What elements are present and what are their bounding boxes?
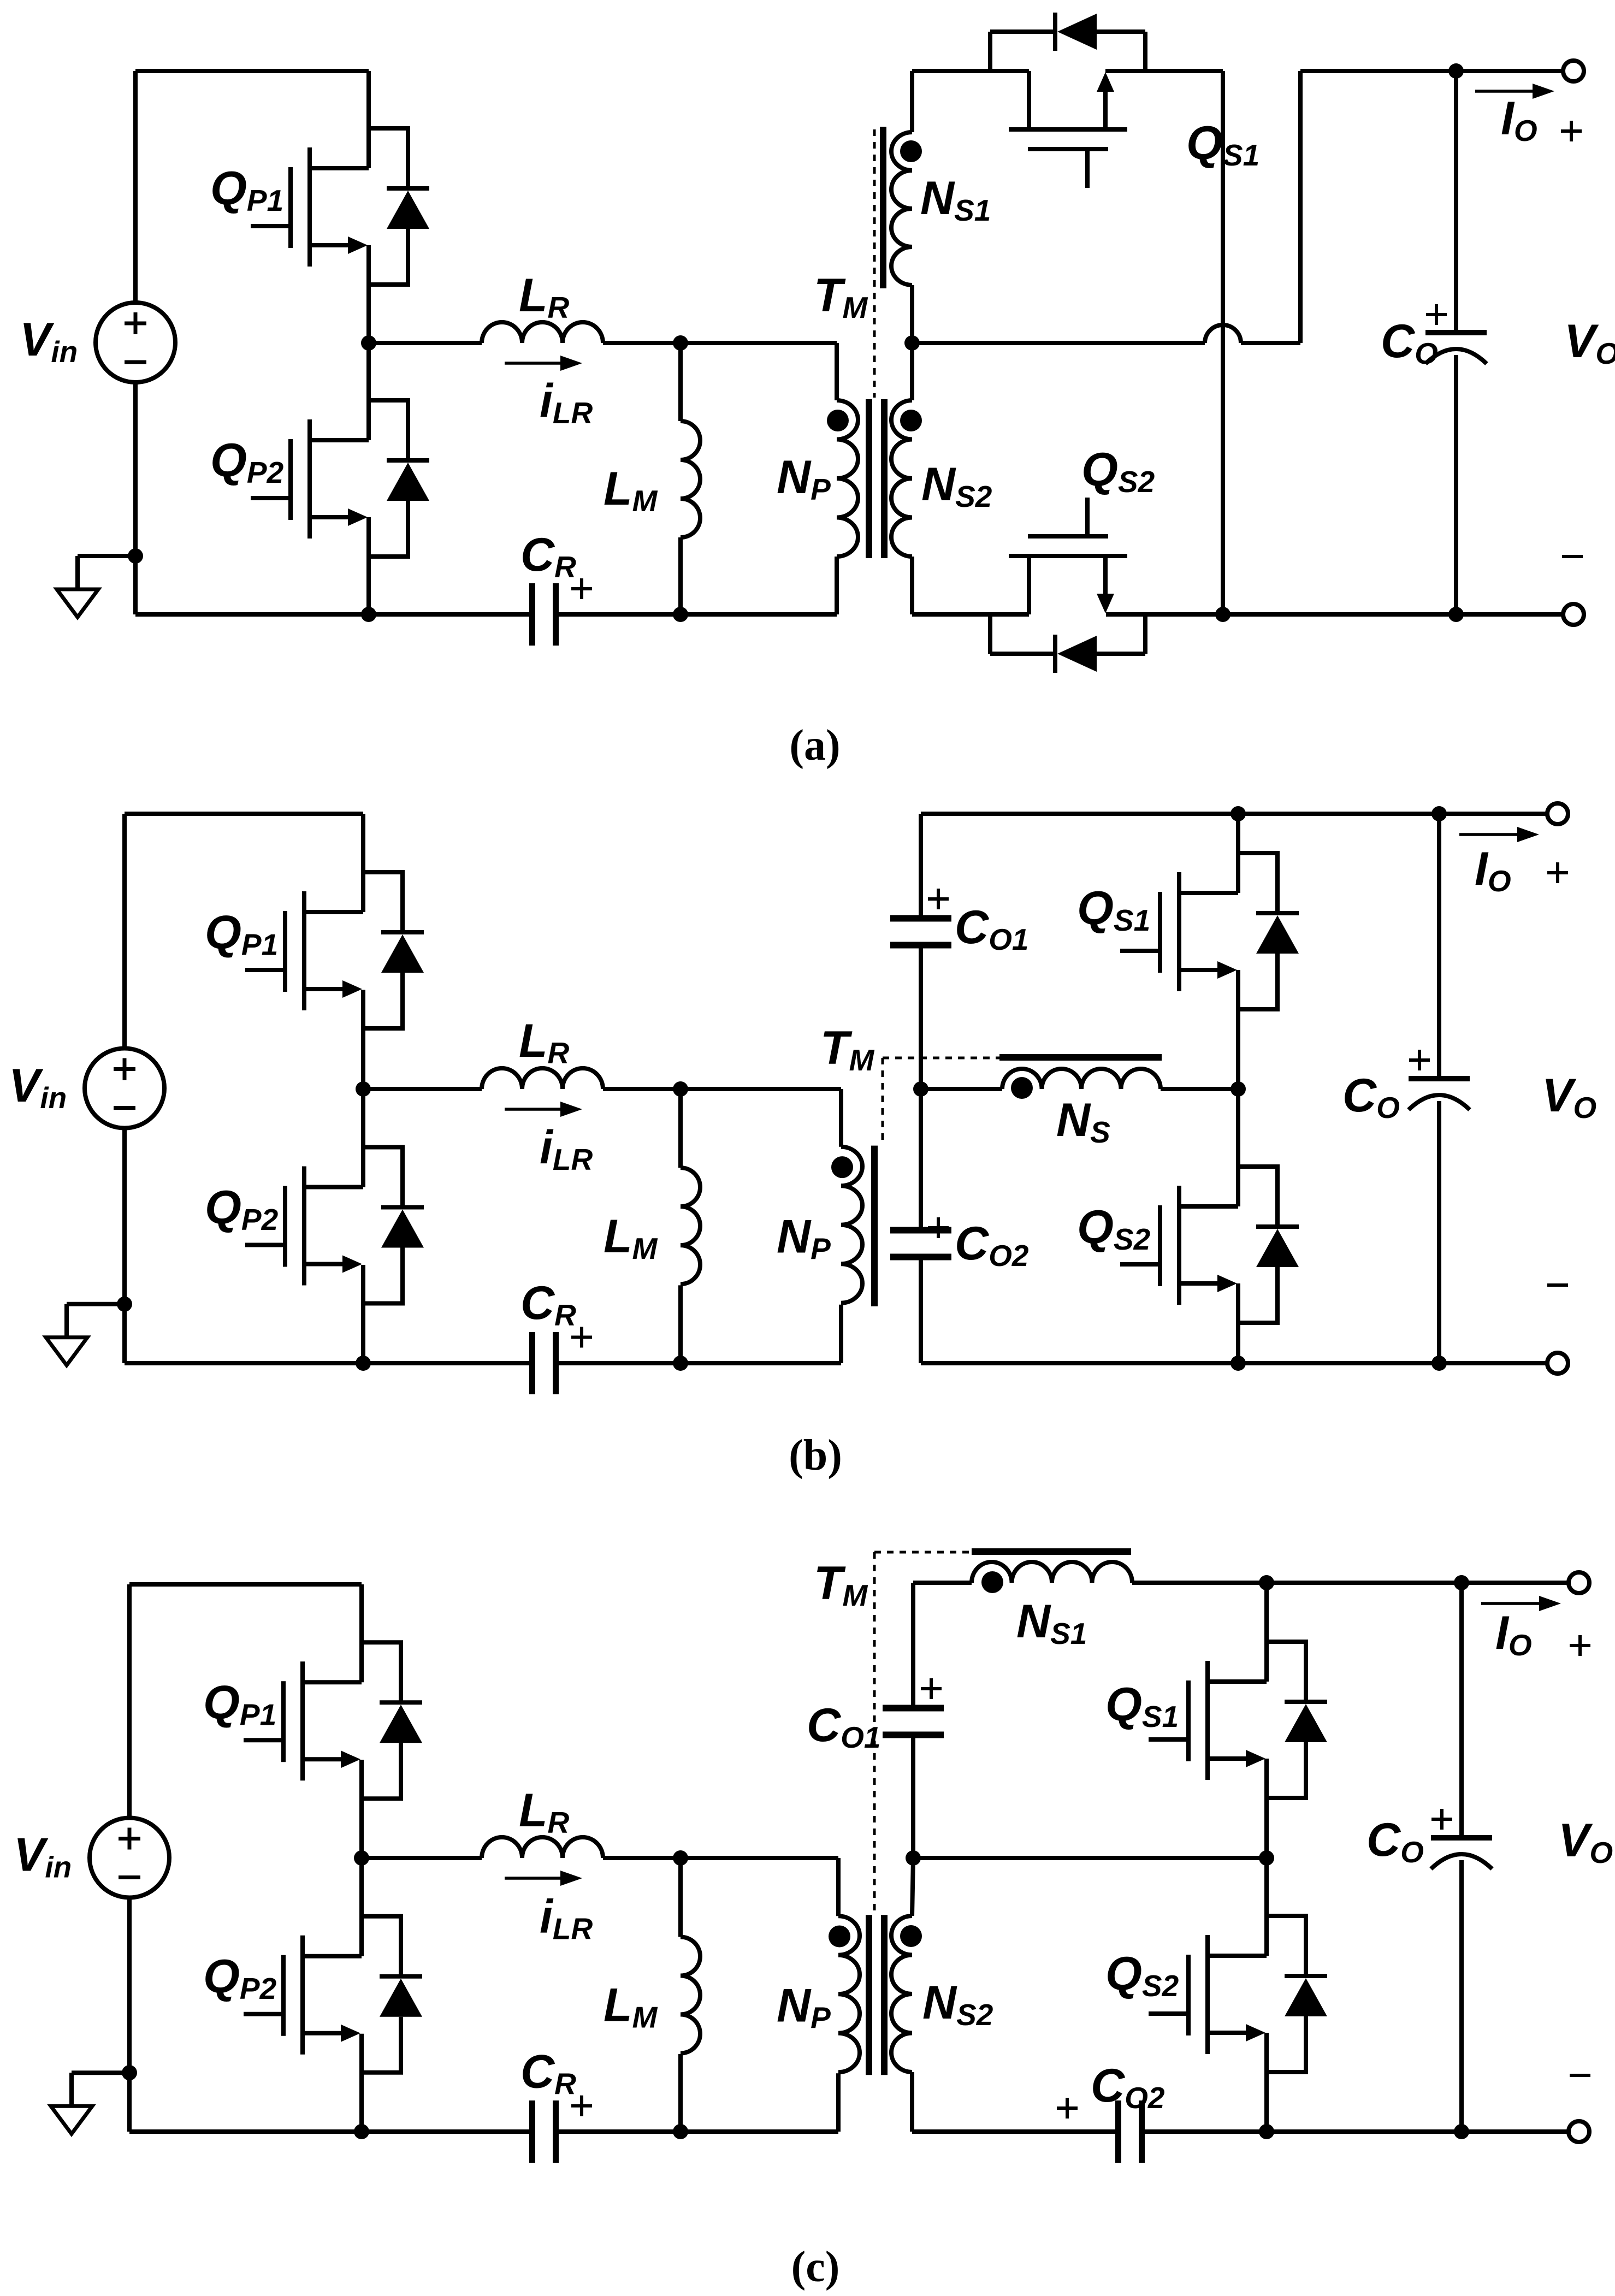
- svg-text:(b): (b): [789, 1431, 842, 1480]
- svg-text:(a): (a): [789, 721, 840, 770]
- svg-text:(c): (c): [791, 2243, 840, 2291]
